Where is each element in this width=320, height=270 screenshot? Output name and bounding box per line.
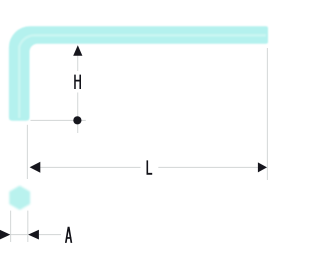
label H — [74, 75, 81, 89]
A dimension line (right of arrows, to label) — [39, 234, 61, 236]
hex key body (L-shaped wrench, long arm to the right) — [9, 26, 268, 120]
L arrowhead (left) — [30, 162, 41, 173]
L dimension line (left of label) — [38, 166, 141, 168]
H dimension line (vertical, lower segment to dot) — [77, 93, 79, 134]
label L — [147, 160, 153, 174]
A arrowhead (outside right, pointing left) — [28, 230, 39, 240]
label A crossbar — [66, 237, 71, 239]
A arrowhead (outside left, pointing right) — [0, 230, 10, 240]
L extension line (right, at tip of long arm) — [266, 48, 268, 180]
H reference line (horizontal at key tip bottom) — [31, 119, 86, 121]
L arrowhead (right) — [258, 162, 267, 172]
A extension line (left, from hexagon left flat) — [10, 211, 12, 242]
L extension line (left, below short arm) — [26, 125, 28, 179]
label A — [65, 227, 72, 243]
H arrowhead (up, at underside of long arm) — [73, 45, 82, 56]
A dimension line (between extension lines) — [11, 234, 28, 236]
hexagon cross-section (across-flats A) — [10, 187, 29, 210]
H dot (origin marker) — [73, 116, 81, 124]
H dimension line (vertical, upper segment) — [77, 56, 79, 72]
A extension line (right, from hexagon right flat) — [27, 211, 29, 242]
L dimension line (right of label) — [158, 166, 259, 168]
highlight streak along centerline of arms — [19, 35, 266, 118]
